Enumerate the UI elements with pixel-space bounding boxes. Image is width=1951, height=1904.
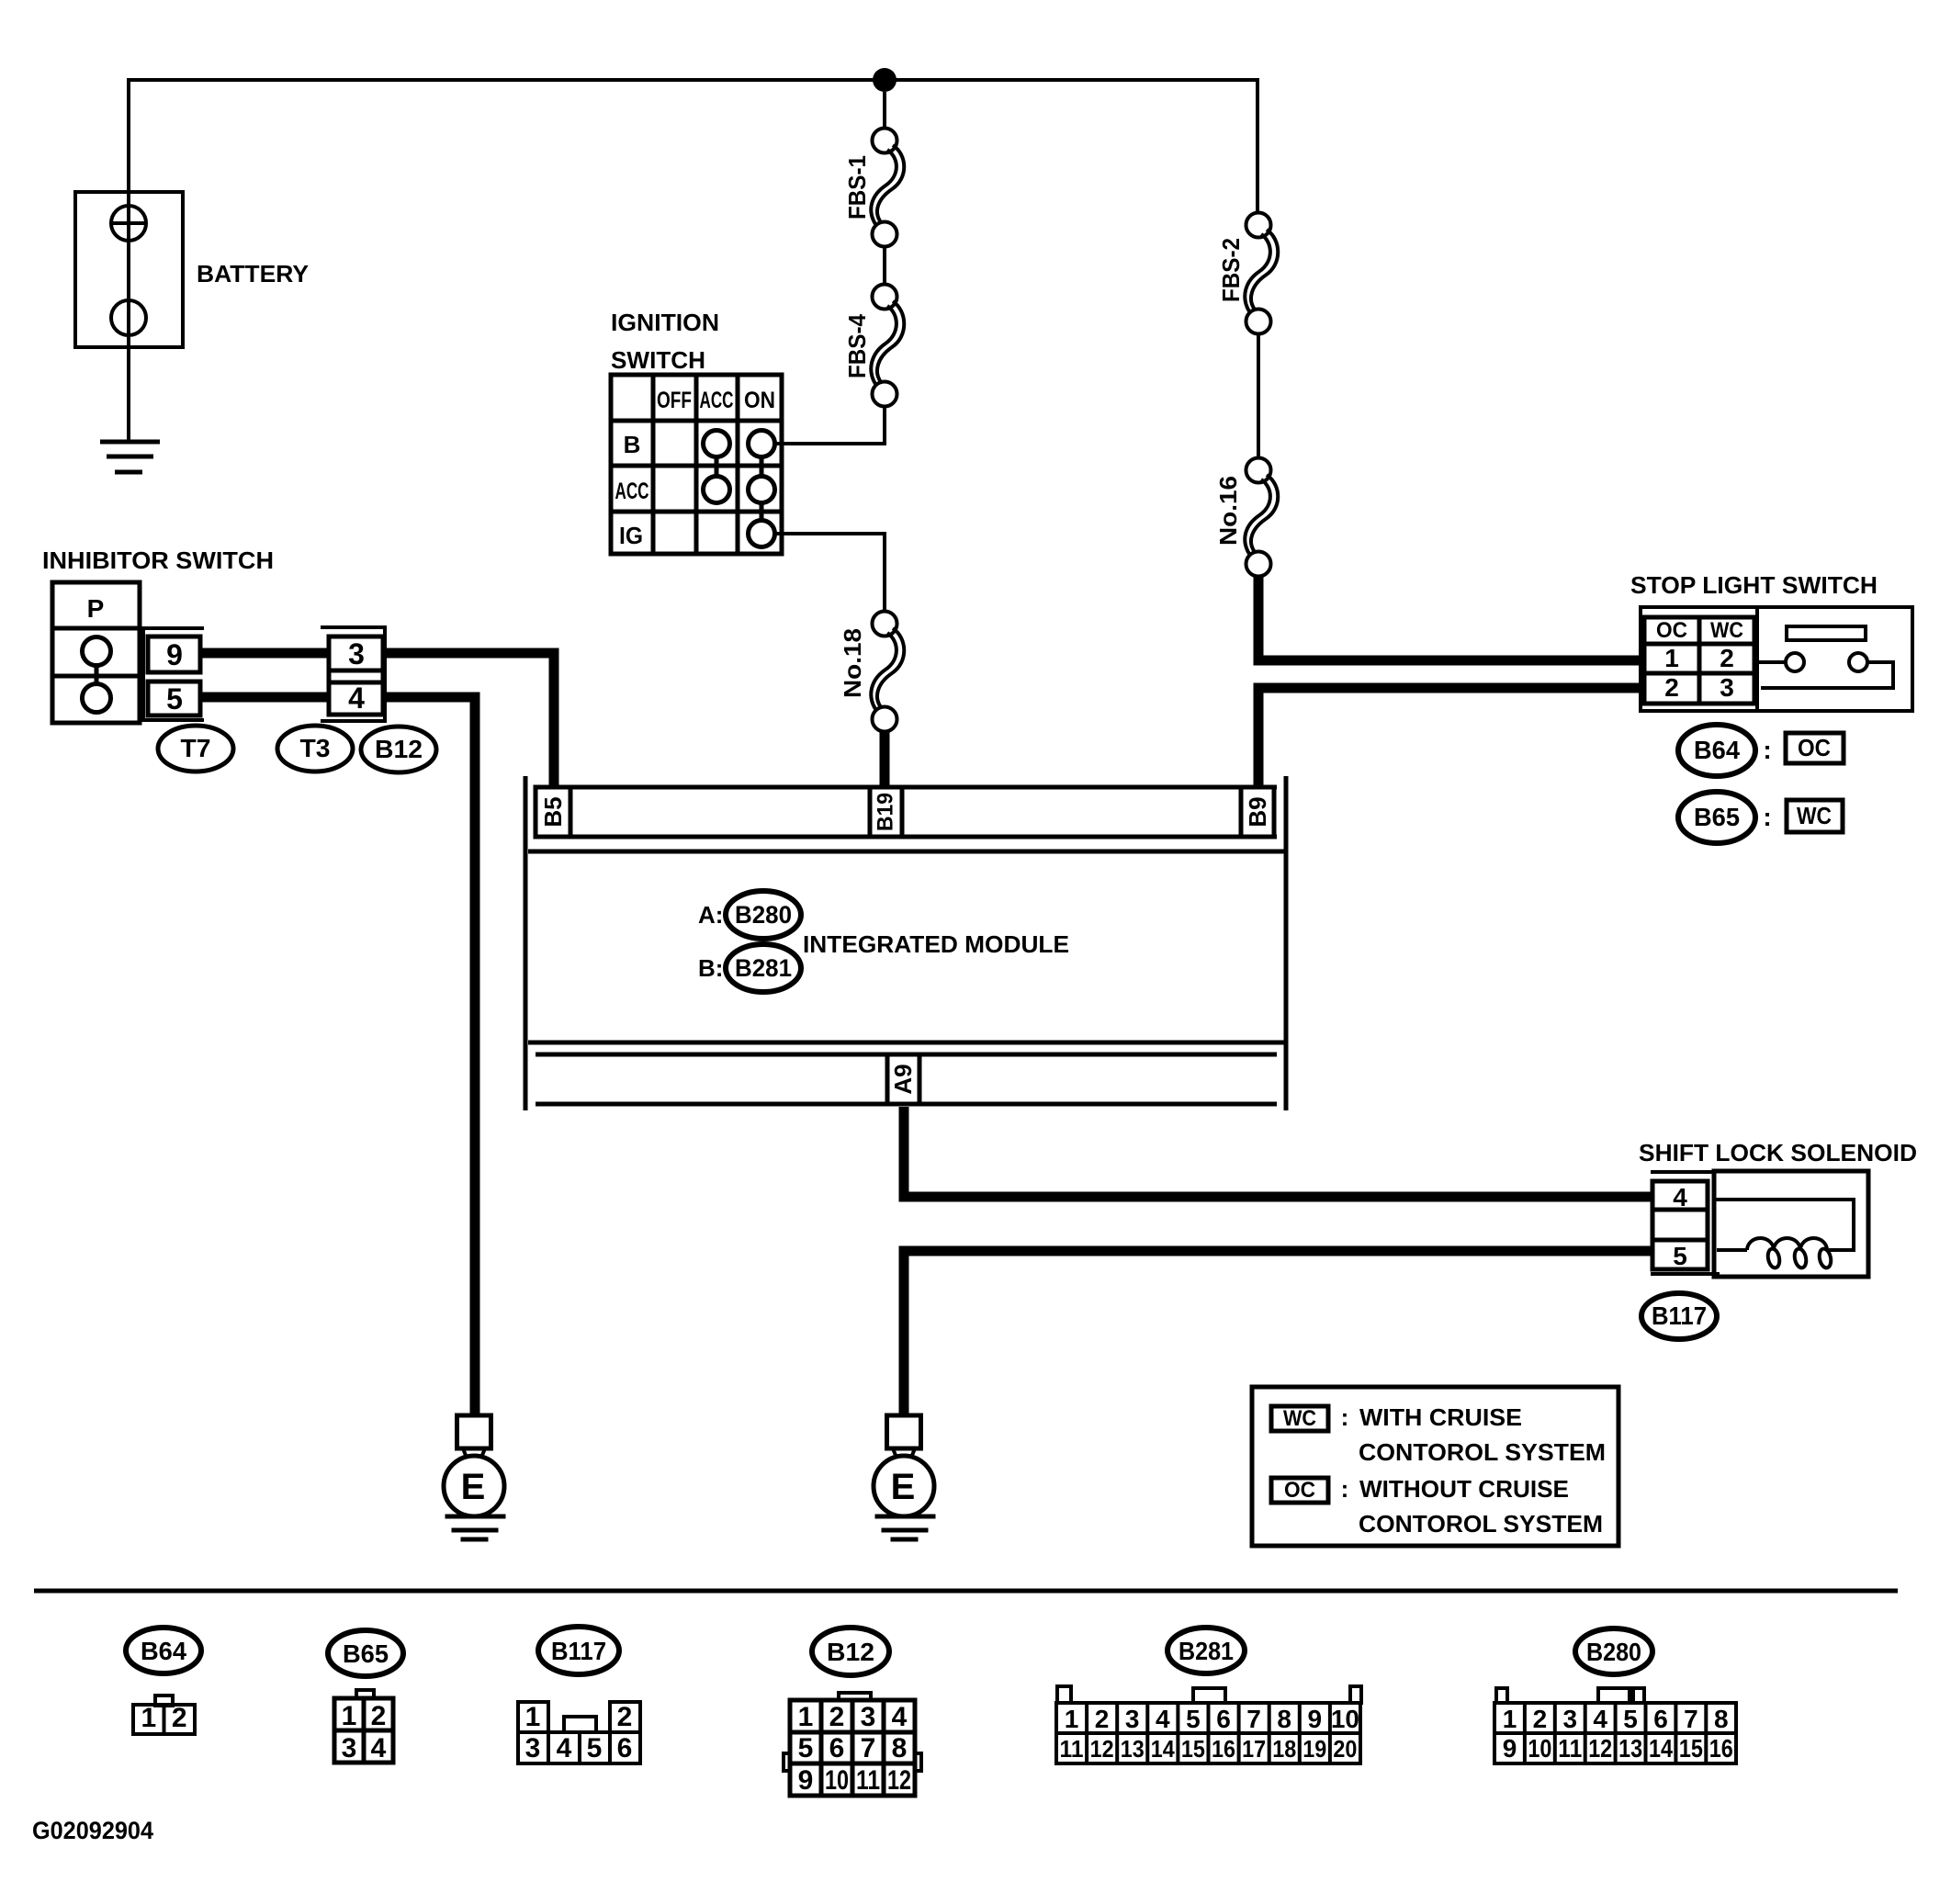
svg-text:B65: B65 <box>1694 803 1740 831</box>
svg-text:2: 2 <box>1720 644 1734 672</box>
svg-text:E: E <box>891 1467 916 1507</box>
svg-text:16: 16 <box>1212 1735 1235 1763</box>
svg-text:5: 5 <box>587 1733 603 1763</box>
svg-text:IG: IG <box>619 522 643 549</box>
svg-text:WC: WC <box>1797 802 1832 829</box>
svg-text::: : <box>1341 1403 1349 1431</box>
svg-text:SHIFT LOCK SOLENOID: SHIFT LOCK SOLENOID <box>1639 1139 1917 1166</box>
svg-text:7: 7 <box>1684 1705 1698 1733</box>
svg-text:WITHOUT CRUISE: WITHOUT CRUISE <box>1359 1475 1569 1503</box>
svg-text:7: 7 <box>1246 1705 1261 1733</box>
svg-text:5: 5 <box>1623 1705 1638 1733</box>
svg-text:18: 18 <box>1272 1735 1296 1763</box>
svg-text:4: 4 <box>348 682 365 715</box>
svg-text:B9: B9 <box>1244 796 1271 827</box>
svg-text:B12: B12 <box>375 735 423 763</box>
svg-text:B12: B12 <box>827 1638 874 1666</box>
svg-text:8: 8 <box>1714 1705 1729 1733</box>
svg-text:B117: B117 <box>551 1637 606 1665</box>
svg-text:INTEGRATED MODULE: INTEGRATED MODULE <box>803 930 1069 958</box>
svg-text:6: 6 <box>1216 1705 1231 1733</box>
svg-text:WC: WC <box>1710 618 1743 643</box>
svg-text:2: 2 <box>371 1701 387 1731</box>
svg-text:15: 15 <box>1679 1734 1703 1763</box>
svg-text:10: 10 <box>1331 1705 1359 1733</box>
svg-text:10: 10 <box>825 1765 849 1796</box>
svg-text:B281: B281 <box>1178 1637 1234 1665</box>
svg-text:B65: B65 <box>343 1639 389 1668</box>
svg-text::: : <box>1763 803 1771 831</box>
svg-text:5: 5 <box>798 1733 814 1763</box>
svg-text:3: 3 <box>1563 1705 1578 1733</box>
svg-text:CONTOROL SYSTEM: CONTOROL SYSTEM <box>1359 1510 1603 1538</box>
svg-text:6: 6 <box>1653 1705 1668 1733</box>
svg-text:SWITCH: SWITCH <box>611 346 705 374</box>
svg-text:No.16: No.16 <box>1214 476 1242 546</box>
svg-text:OC: OC <box>1656 618 1687 643</box>
svg-text:2: 2 <box>1095 1705 1110 1733</box>
svg-text::: : <box>1341 1475 1349 1503</box>
svg-text:BATTERY: BATTERY <box>197 260 309 287</box>
svg-text:15: 15 <box>1181 1735 1205 1763</box>
svg-text:1: 1 <box>525 1702 541 1732</box>
svg-text:4: 4 <box>371 1733 387 1763</box>
svg-text:11: 11 <box>1060 1735 1084 1763</box>
svg-text:14: 14 <box>1151 1735 1175 1763</box>
svg-text:FBS-4: FBS-4 <box>843 314 871 378</box>
svg-text:9: 9 <box>166 638 183 671</box>
svg-text:13: 13 <box>1618 1734 1642 1763</box>
svg-text:2: 2 <box>172 1703 187 1733</box>
svg-text:12: 12 <box>1090 1735 1114 1763</box>
svg-text:2: 2 <box>1664 673 1679 702</box>
svg-text:5: 5 <box>1673 1242 1687 1270</box>
svg-text:1: 1 <box>798 1702 814 1732</box>
svg-text:B281: B281 <box>735 954 792 982</box>
svg-text:B: B <box>624 431 641 458</box>
svg-text:ON: ON <box>744 388 775 413</box>
svg-text:8: 8 <box>1277 1705 1291 1733</box>
svg-text:T7: T7 <box>181 734 211 762</box>
svg-text:4: 4 <box>1593 1705 1607 1733</box>
svg-text:CONTOROL SYSTEM: CONTOROL SYSTEM <box>1359 1438 1606 1466</box>
svg-text:20: 20 <box>1333 1735 1357 1763</box>
svg-text:3: 3 <box>861 1702 876 1732</box>
svg-text:10: 10 <box>1528 1734 1551 1763</box>
svg-text:1: 1 <box>141 1703 156 1733</box>
svg-text:No.18: No.18 <box>839 628 866 698</box>
svg-text:8: 8 <box>892 1733 908 1763</box>
svg-text:OC: OC <box>1798 734 1831 761</box>
svg-text:B280: B280 <box>735 901 792 929</box>
svg-text:6: 6 <box>829 1733 845 1763</box>
svg-text:1: 1 <box>1664 644 1679 672</box>
svg-text:B64: B64 <box>1694 736 1740 764</box>
svg-text:1: 1 <box>1065 1705 1079 1733</box>
svg-text:WITH CRUISE: WITH CRUISE <box>1359 1403 1522 1431</box>
svg-text:5: 5 <box>166 682 183 715</box>
svg-text:11: 11 <box>856 1765 880 1796</box>
svg-text:1: 1 <box>1503 1705 1517 1733</box>
svg-text:4: 4 <box>557 1733 572 1763</box>
svg-text:IGNITION: IGNITION <box>611 309 719 336</box>
svg-text:FBS-1: FBS-1 <box>843 155 871 220</box>
svg-text:E: E <box>461 1467 486 1507</box>
svg-text:9: 9 <box>798 1765 814 1796</box>
svg-text:16: 16 <box>1709 1734 1733 1763</box>
svg-text:4: 4 <box>1156 1705 1170 1733</box>
svg-text:B19: B19 <box>874 793 898 831</box>
svg-text:7: 7 <box>861 1733 876 1763</box>
svg-text:FBS-2: FBS-2 <box>1217 238 1245 302</box>
svg-text:G02092904: G02092904 <box>32 1817 153 1844</box>
svg-text:B117: B117 <box>1652 1301 1707 1330</box>
svg-text:2: 2 <box>829 1702 845 1732</box>
svg-text:9: 9 <box>1308 1705 1323 1733</box>
svg-text:A9: A9 <box>889 1064 917 1094</box>
svg-text:19: 19 <box>1303 1735 1326 1763</box>
svg-text:9: 9 <box>1503 1734 1517 1763</box>
svg-text:5: 5 <box>1186 1705 1201 1733</box>
svg-text:3: 3 <box>525 1733 541 1763</box>
svg-text::: : <box>1763 736 1771 764</box>
svg-text:14: 14 <box>1649 1734 1673 1763</box>
svg-text:B:: B: <box>698 954 723 982</box>
svg-text:OFF: OFF <box>657 388 692 413</box>
svg-text:B64: B64 <box>141 1637 186 1665</box>
svg-text:13: 13 <box>1121 1735 1145 1763</box>
svg-text:12: 12 <box>1588 1734 1612 1763</box>
svg-text:2: 2 <box>617 1702 633 1732</box>
svg-text:1: 1 <box>342 1701 357 1731</box>
svg-text:17: 17 <box>1242 1735 1266 1763</box>
svg-text:6: 6 <box>617 1733 633 1763</box>
svg-text:ACC: ACC <box>615 479 649 504</box>
svg-text:4: 4 <box>1673 1183 1687 1211</box>
svg-text:4: 4 <box>892 1702 908 1732</box>
svg-text:B280: B280 <box>1586 1638 1641 1666</box>
svg-text:T3: T3 <box>300 734 331 762</box>
svg-text:3: 3 <box>1125 1705 1140 1733</box>
svg-text:3: 3 <box>348 637 365 670</box>
svg-text:11: 11 <box>1558 1734 1582 1763</box>
svg-text:3: 3 <box>1720 673 1734 702</box>
svg-text:2: 2 <box>1533 1705 1548 1733</box>
svg-text:STOP LIGHT SWITCH: STOP LIGHT SWITCH <box>1630 571 1878 599</box>
svg-text:ACC: ACC <box>700 388 734 413</box>
svg-text:WC: WC <box>1283 1406 1316 1431</box>
svg-text:12: 12 <box>887 1765 911 1796</box>
svg-text:INHIBITOR SWITCH: INHIBITOR SWITCH <box>42 546 274 574</box>
svg-text:A:: A: <box>698 901 723 929</box>
svg-text:P: P <box>87 594 105 623</box>
svg-text:OC: OC <box>1284 1478 1315 1503</box>
svg-text:3: 3 <box>342 1733 357 1763</box>
svg-text:B5: B5 <box>539 796 567 827</box>
